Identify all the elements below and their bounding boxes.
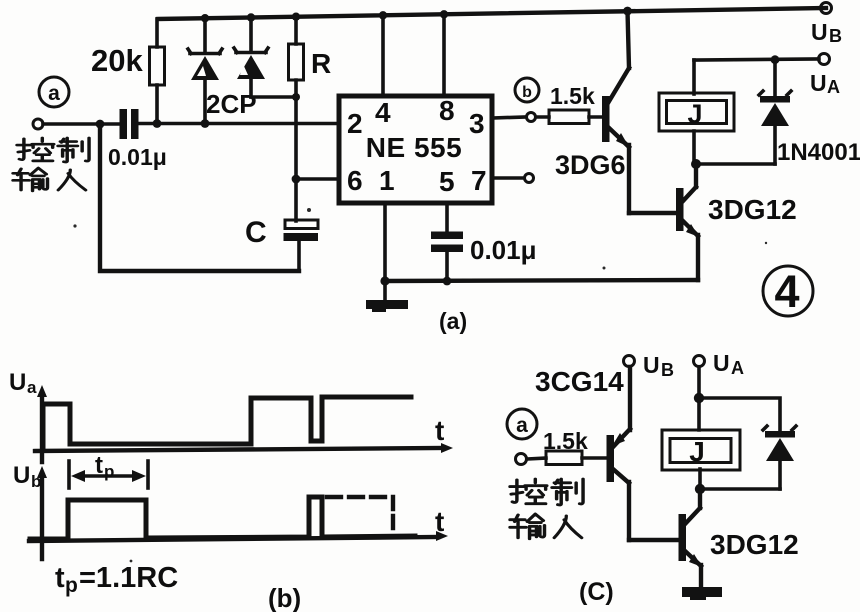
svg-text:NE 555: NE 555 [366,132,462,163]
resistor 20k [150,19,165,121]
label 0.01u [108,144,167,170]
svg-text:(b): (b) [268,583,301,612]
pin 7 [471,165,487,196]
wire: left return [100,124,299,271]
capacitor C [284,220,319,271]
relay J (c) [662,430,740,489]
wire: pin3 out [492,117,525,118]
wire: cap to 555 pin2 [139,122,339,126]
label 3DG12 (c) [710,529,799,560]
junction [623,7,632,16]
axis Ub vertical [37,466,47,559]
label UB (c) [643,352,674,380]
label 2CP [206,89,257,119]
svg-text:C: C [245,216,267,249]
svg-text:0.01μ: 0.01μ [470,235,537,265]
label 20k [91,43,143,78]
pin 2 [347,108,363,139]
pin 8 [439,95,455,126]
scan speckles [73,208,767,562]
wire: pin6 [296,177,339,181]
svg-text:(a): (a) [439,308,467,334]
junction [691,159,701,169]
label 0.01u (pin5) [470,235,537,265]
svg-text:6: 6 [347,165,363,196]
label t (Ub) [435,506,444,537]
label R [311,48,331,79]
svg-text:B: B [829,26,842,46]
label (C) [579,578,614,606]
junction [379,11,387,19]
wire: pin8 to rail [442,14,446,96]
label UB (a) [811,19,842,46]
label (a) [439,308,467,334]
svg-text:a: a [48,82,60,105]
svg-text:3DG12: 3DG12 [710,529,799,560]
svg-text:=1.1RC: =1.1RC [79,562,178,594]
svg-text:U: U [713,350,730,376]
wire: junction to diode top (c) [699,398,780,432]
IC NE555 U1 [339,96,492,203]
transistor Q3 3CG14 [607,367,631,540]
resistor 1.5k (c) [527,451,607,465]
wire: junction to diode bottom (c) [700,487,780,491]
svg-text:U: U [13,462,30,489]
transistor Q1 3DG6 [602,11,629,213]
svg-text:U: U [643,352,660,378]
pin 6 [347,165,363,196]
resistor R [289,17,304,221]
svg-text:U: U [810,70,827,96]
wire: input to junction [43,122,119,126]
wire: pin7 out [492,176,524,180]
svg-text:4: 4 [375,97,391,128]
svg-text:1.5k: 1.5k [550,83,595,109]
label 3DG12 (a) [708,194,797,225]
wire: pin4 to rail [381,15,385,96]
relay J (a) [659,60,734,164]
junction [443,277,452,286]
svg-text:2: 2 [347,108,363,139]
wire: diode2 to R column [251,93,300,101]
wire: UA line [694,59,819,60]
junction [292,13,300,21]
pin 1 [379,165,395,196]
svg-text:3DG12: 3DG12 [708,194,797,225]
diode 2CP #2 [234,18,268,98]
diode D3 1N4001 [759,60,791,164]
junction [694,393,704,403]
svg-text:p: p [65,574,78,597]
resistor 1.5k (a) [536,110,602,124]
svg-text:J: J [689,436,705,467]
junction [771,55,780,64]
svg-text:p: p [104,462,114,481]
transistor Q4 3DG12 (c) [679,489,703,588]
svg-text:U: U [9,369,26,396]
label Ub [13,462,41,491]
svg-text:R: R [311,48,331,79]
label tp=1.1RC [55,562,178,597]
capacitor 0.01u (input) [120,109,139,139]
terminal UA (c) [694,356,705,367]
label 1.5k (c) [543,428,588,454]
axis Ua horizontal [35,443,453,453]
junction [201,119,210,128]
pin 5 [439,166,455,197]
waveform Ua [43,397,411,450]
junction [153,119,162,128]
junction [96,120,105,129]
svg-text:0.01μ: 0.01μ [108,144,167,170]
svg-text:b: b [522,84,532,101]
svg-text:2CP: 2CP [206,89,257,119]
svg-text:a: a [27,378,37,397]
svg-text:t: t [95,452,103,479]
transistor Q2 3DG12 (a) [676,164,699,280]
junction pin6 column [292,175,301,184]
label 3DG6 [555,150,626,180]
diode D4 (c) [763,426,796,489]
label (b) [268,583,301,612]
terminal UB (c) [624,356,635,367]
svg-text:A: A [731,358,744,378]
svg-text:(C): (C) [579,578,614,606]
diode 2CP #1 [188,18,222,122]
label UA (c) [713,350,744,378]
svg-text:5: 5 [439,166,455,197]
svg-text:7: 7 [471,165,487,196]
label 3CG14 [535,366,624,397]
svg-text:J: J [687,99,702,129]
junction [380,276,389,285]
wire: 3CG14 emitter to 3DG12 base (c) [629,538,679,542]
axis Ub horizontal [29,531,448,541]
tp dimension [69,452,148,488]
svg-text:a: a [516,414,528,437]
svg-text:3: 3 [469,108,485,139]
svg-text:t: t [55,562,65,594]
wire: bottom rail (a) [385,280,698,281]
label t (Ua) [435,415,444,446]
junction [440,10,448,18]
svg-text:3CG14: 3CG14 [535,366,624,397]
axis Ua vertical [37,385,47,462]
label Ua [9,369,37,397]
pin 3 [469,108,485,139]
svg-text:A: A [827,77,840,97]
junction [247,13,255,21]
figure number 4 [763,266,813,317]
svg-text:20k: 20k [91,43,143,78]
svg-text:1: 1 [379,165,395,196]
label C [245,216,267,249]
input terminal circle [33,119,43,129]
junction [201,14,209,22]
label UA (a) [810,70,840,97]
node a circle (c) [507,409,537,439]
svg-text:3DG6: 3DG6 [555,150,626,180]
terminal b open circle [527,113,536,122]
node a terminal circle [39,77,69,107]
svg-text:U: U [811,19,828,45]
wire: 3DG6 emitter to 3DG12 base [629,211,676,215]
svg-text:1N4001: 1N4001 [777,139,860,166]
svg-text:B: B [661,360,674,380]
svg-text:4: 4 [774,266,799,317]
terminal UA (a) [819,54,830,65]
text control input (c) [510,479,583,539]
wire: relay bottom to diode [694,162,775,166]
svg-text:t: t [435,415,444,446]
junction [695,484,705,494]
ground (a) [366,281,408,312]
wire: pin1 down [383,203,387,281]
terminal pin7 open circle [525,174,534,183]
capacitor 0.01u (pin5) [431,232,463,282]
label 1N4001 [777,139,860,166]
wire: pin5 down [445,203,449,233]
wire: UA down to relay (c) [697,367,701,430]
terminal UB (a) [821,3,832,14]
wire: top supply rail [158,8,826,19]
waveform Ub solid [30,497,415,539]
ground (c) [682,587,722,600]
text control input (a) [13,138,89,191]
input terminal (c) [516,454,527,465]
pin 4 [375,97,391,128]
waveform Ub dashed [327,497,393,535]
svg-text:8: 8 [439,95,455,126]
svg-text:t: t [435,506,444,537]
svg-text:1.5k: 1.5k [543,428,588,454]
label 1.5k (a) [550,83,595,109]
node b circle [515,78,539,102]
